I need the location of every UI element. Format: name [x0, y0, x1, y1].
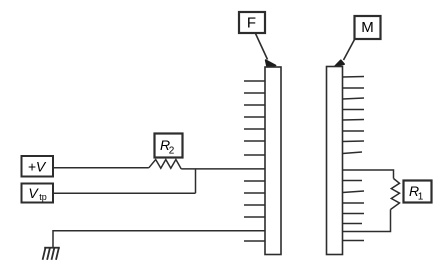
arrow from F label to F plate [256, 34, 276, 67]
arrow from M label to M plate [335, 40, 355, 67]
F tooth 11 [244, 216, 265, 218]
node Vtp tap (vertical) [195, 169, 197, 193]
F tooth 2 [244, 92, 265, 94]
wire +V to R2 [53, 167, 149, 169]
M tooth 5 [343, 119, 365, 122]
M tooth 11 [343, 202, 365, 204]
F tooth 9 [244, 192, 265, 194]
F tooth 1 [244, 80, 265, 82]
M tooth 10 [343, 191, 365, 193]
F tooth 7 [244, 154, 265, 156]
wire Vtp to tap node [53, 192, 196, 194]
wire M plate to R1 top [343, 170, 394, 179]
ground wire from F plate [53, 231, 265, 248]
ground symbol [43, 248, 60, 260]
wire R1 bottom to M plate [343, 210, 391, 232]
M tooth 14 [343, 240, 365, 242]
M tooth 13 [343, 223, 363, 225]
test point box Vtp [22, 184, 54, 203]
F tooth 10 [244, 204, 265, 206]
M tooth 2 [343, 87, 365, 89]
F tooth 3 [244, 104, 265, 106]
R2 value label box [155, 134, 183, 158]
resistor R1 zigzag [391, 179, 400, 210]
svg-text:1: 1 [418, 192, 424, 203]
M tooth 3 [343, 98, 365, 99]
svg-text:tp: tp [39, 192, 47, 202]
M tooth 1 [343, 76, 365, 79]
R1 value label box [404, 181, 432, 203]
M tooth 9 [343, 180, 363, 182]
svg-text:M: M [361, 19, 374, 36]
resistor R2 zigzag [149, 160, 181, 169]
F tooth 4 [244, 116, 265, 118]
M tooth 12 [343, 213, 365, 215]
plate F (fixed electrode) [265, 67, 281, 255]
svg-text:2: 2 [169, 146, 175, 157]
label box M [355, 16, 381, 39]
M tooth 4 [343, 109, 365, 111]
plate M (movable electrode) [327, 67, 343, 255]
M tooth 6 [343, 130, 365, 132]
M tooth 7 [343, 140, 365, 143]
F tooth 8 [244, 180, 265, 182]
source box +V [22, 156, 54, 177]
F tooth 12 [244, 240, 265, 242]
label box F [239, 12, 265, 33]
svg-text:+V: +V [28, 159, 47, 175]
M tooth 8 [343, 152, 363, 154]
wire R2 to F plate [181, 168, 265, 170]
F tooth 6 [244, 140, 265, 142]
F tooth 5 [244, 128, 265, 130]
svg-text:F: F [247, 15, 256, 32]
